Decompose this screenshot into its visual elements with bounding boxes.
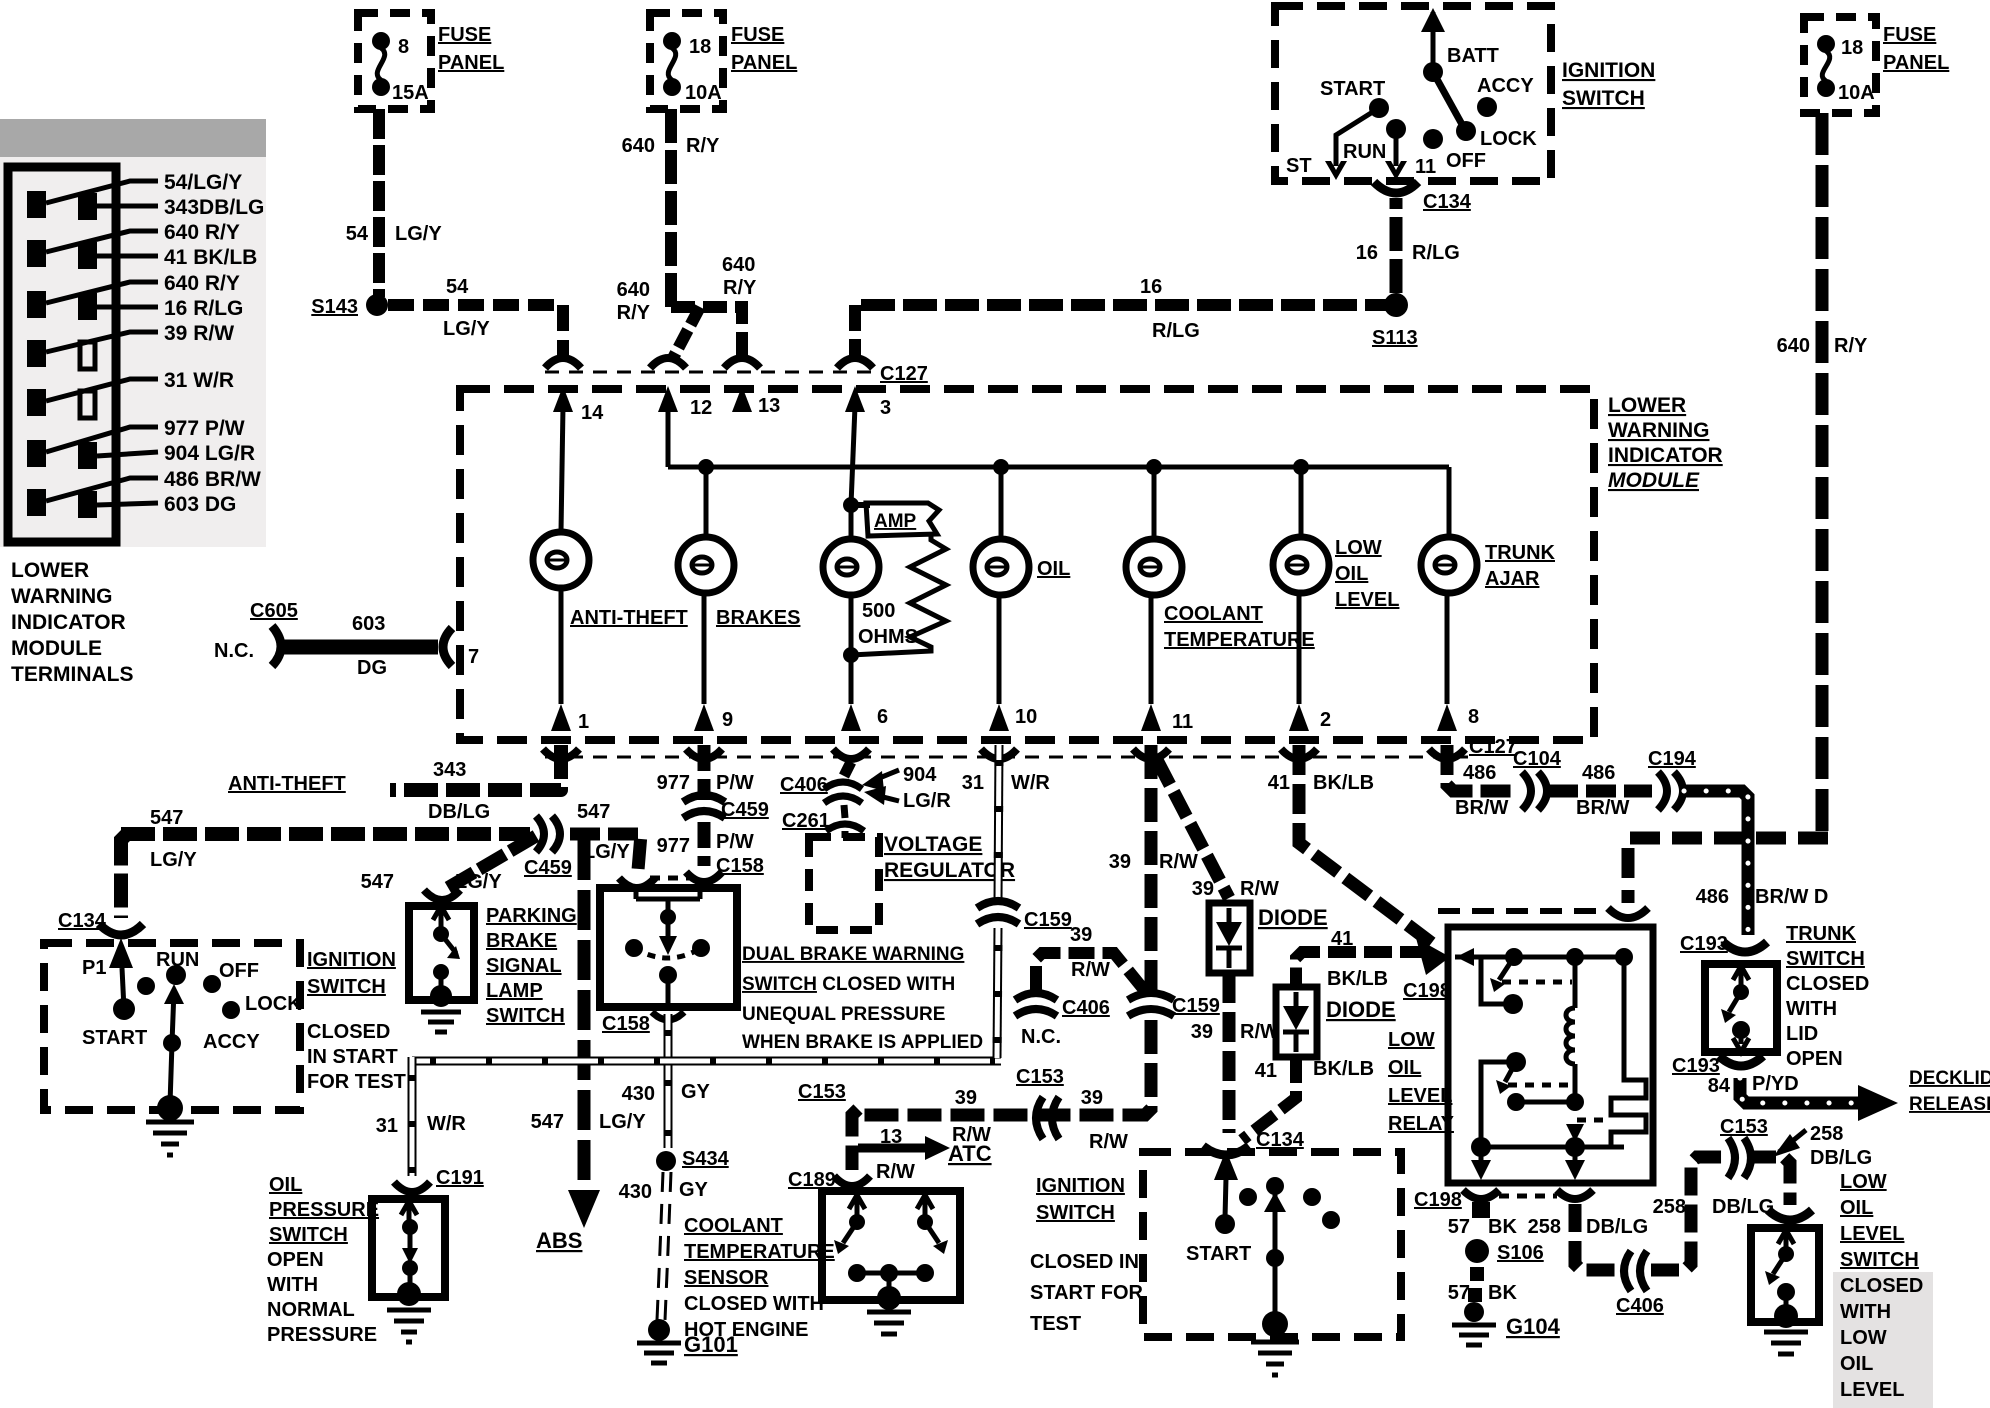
svg-text:C134: C134	[58, 910, 107, 932]
svg-text:CLOSED IN: CLOSED IN	[1030, 1251, 1139, 1273]
svg-text:SENSOR: SENSOR	[684, 1267, 769, 1289]
wire 41 diode2 top	[1296, 952, 1428, 985]
lead 54/LG/Y	[46, 181, 158, 203]
svg-text:54/LG/Y: 54/LG/Y	[164, 171, 242, 194]
ground low oil switch	[1764, 1332, 1808, 1354]
svg-text:BATT: BATT	[1447, 45, 1499, 67]
wire 486 BR/W from pin 8	[1447, 745, 1514, 791]
svg-text:GY: GY	[681, 1081, 711, 1103]
lamp TRUNK AJAR	[1447, 467, 1452, 537]
svg-text:BRAKES: BRAKES	[716, 607, 800, 629]
svg-text:BR/W D: BR/W D	[1755, 886, 1828, 908]
pin P1 arrow	[109, 938, 133, 968]
contact BATT	[1423, 62, 1443, 82]
lead 16 R/LG	[97, 305, 158, 310]
svg-text:SWITCH: SWITCH	[1562, 87, 1645, 110]
connector C134 ignition 2	[1203, 1146, 1249, 1155]
svg-text:PANEL: PANEL	[731, 52, 797, 74]
svg-text:BRAKE: BRAKE	[486, 930, 557, 952]
svg-text:39 R/W: 39 R/W	[164, 322, 234, 345]
svg-text:C194: C194	[1648, 748, 1697, 770]
lead 977 P/W	[46, 427, 158, 452]
wire 39 to C189 corner	[852, 1109, 858, 1170]
svg-text:C459: C459	[721, 799, 769, 821]
svg-text:P/YD: P/YD	[1752, 1073, 1799, 1095]
svg-text:ATC: ATC	[948, 1141, 992, 1166]
dashed connector line between pins	[650, 876, 692, 881]
connector C159 on 31	[977, 901, 1019, 908]
wire 39 R/W diode branch diagonal	[1157, 760, 1229, 898]
connector C189	[834, 1176, 870, 1186]
svg-text:LG/R: LG/R	[903, 790, 951, 812]
wire 31 W/R from pin 10	[998, 745, 999, 902]
svg-text:LOWER: LOWER	[1608, 394, 1686, 417]
voltage regulator dashed box	[809, 837, 879, 930]
svg-text:640: 640	[722, 254, 755, 276]
pin L1	[27, 191, 46, 218]
connector C104	[1522, 772, 1531, 810]
svg-text:LG/Y: LG/Y	[150, 849, 197, 871]
svg-text:OIL: OIL	[1840, 1197, 1873, 1219]
wire 640 R/Y right vertical long	[1816, 113, 1829, 833]
svg-text:R/W: R/W	[1240, 878, 1279, 900]
low oil switch contacts	[1778, 1230, 1794, 1248]
sensor left contact	[849, 1195, 865, 1216]
svg-text:C153: C153	[1016, 1066, 1064, 1088]
svg-text:10: 10	[1015, 706, 1037, 728]
svg-text:LOW: LOW	[1840, 1171, 1887, 1193]
wire 31 W/R down to C191	[408, 1057, 417, 1176]
svg-text:OHMS: OHMS	[858, 626, 918, 648]
svg-text:LEVEL: LEVEL	[1840, 1379, 1904, 1401]
svg-text:31 W/R: 31 W/R	[164, 369, 234, 392]
connector C153 on 258	[1728, 1138, 1735, 1178]
svg-text:486: 486	[1463, 762, 1496, 784]
svg-text:343DB/LG: 343DB/LG	[164, 196, 264, 219]
SECTION: right bottom: 486 trunk, relay, 258, decklid	[1388, 736, 1990, 1408]
SECTION: top-left terminal block	[0, 119, 479, 686]
dual brake side contacts	[625, 939, 643, 957]
svg-text:WARNING: WARNING	[1608, 419, 1710, 442]
svg-text:UNEQUAL PRESSURE: UNEQUAL PRESSURE	[742, 1004, 945, 1025]
svg-text:RELEASE: RELEASE	[1909, 1094, 1990, 1115]
splice S434	[656, 1151, 676, 1171]
svg-text:LEVEL: LEVEL	[1840, 1223, 1904, 1245]
svg-text:TEMPERATURE: TEMPERATURE	[1164, 629, 1315, 651]
svg-text:11: 11	[1415, 156, 1436, 178]
fuse F3 18 10A	[1817, 35, 1835, 53]
svg-text:TRUNK: TRUNK	[1786, 923, 1857, 945]
svg-text:603 DG: 603 DG	[164, 493, 236, 516]
ground oil pressure	[387, 1310, 431, 1342]
connector into dual brake left pin	[619, 878, 655, 888]
svg-text:C159: C159	[1172, 995, 1220, 1017]
connector J1 lower warning indicator module terminals body	[8, 167, 116, 542]
svg-text:8: 8	[398, 36, 409, 58]
svg-text:547: 547	[150, 807, 183, 829]
svg-text:PRESSURE: PRESSURE	[267, 1324, 377, 1346]
contact OFF	[203, 975, 221, 993]
svg-text:WARNING: WARNING	[11, 585, 113, 608]
connector C158 below dual brake	[652, 1012, 684, 1020]
pin 14 connector and arrow	[545, 358, 581, 368]
svg-text:343: 343	[433, 759, 466, 781]
svg-text:C134: C134	[1423, 191, 1472, 213]
svg-text:640: 640	[617, 279, 650, 301]
sensor bottom row	[848, 1264, 866, 1282]
pin 13 connector and arrow	[724, 358, 760, 368]
connector C159 on 39	[1128, 993, 1174, 1000]
svg-text:WHEN BRAKE IS APPLIED: WHEN BRAKE IS APPLIED	[742, 1032, 983, 1053]
svg-text:C153: C153	[1720, 1116, 1768, 1138]
connector C158 into dual brake right pin	[686, 872, 722, 882]
lead 904 LG/R	[97, 452, 158, 456]
wire 258 to low oil switch	[1748, 1157, 1790, 1205]
svg-text:ABS: ABS	[536, 1228, 582, 1253]
ignition switch 2 dashed box	[1143, 1152, 1401, 1337]
svg-text:LAMP: LAMP	[486, 980, 543, 1002]
svg-text:TEMPERATURE: TEMPERATURE	[684, 1241, 835, 1263]
svg-text:BK/LB: BK/LB	[1313, 772, 1374, 794]
svg-text:DB/LG: DB/LG	[1712, 1196, 1774, 1218]
wire 31 W/R below C159	[997, 928, 998, 1058]
blade START-ST	[1336, 108, 1379, 166]
svg-text:ANTI-THEFT: ANTI-THEFT	[570, 607, 688, 629]
SECTION: center bottom: 39/41 wires, diodes, sensors	[780, 745, 1451, 1375]
svg-text:IN START: IN START	[307, 1046, 398, 1068]
svg-text:486: 486	[1582, 762, 1615, 784]
svg-text:BK: BK	[1488, 1282, 1517, 1304]
svg-text:SWITCH CLOSED WITH: SWITCH CLOSED WITH	[742, 974, 955, 995]
lead 39 R/W	[46, 332, 158, 352]
svg-text:DB/LG: DB/LG	[428, 801, 490, 823]
ground G104	[1464, 1302, 1484, 1322]
svg-text:MODULE: MODULE	[11, 637, 102, 660]
contact small left	[137, 977, 155, 995]
svg-text:LOCK: LOCK	[245, 993, 302, 1015]
halftone band	[0, 119, 266, 157]
pin 8 arrow and connector	[1437, 704, 1457, 731]
wire 13 R/W ATC stub	[858, 1144, 928, 1153]
arrowhead into relay	[1416, 938, 1450, 975]
pin L4	[27, 340, 46, 367]
svg-text:RUN: RUN	[156, 949, 199, 971]
svg-text:39: 39	[1070, 924, 1092, 946]
svg-text:2: 2	[1320, 709, 1331, 731]
connector C191	[394, 1182, 430, 1192]
svg-text:16: 16	[1140, 276, 1162, 298]
svg-text:BR/W: BR/W	[1455, 797, 1508, 819]
wire diagonal into pin 12	[672, 307, 700, 360]
pin L7	[27, 489, 46, 516]
contact LOCK	[1456, 121, 1476, 141]
svg-text:15A: 15A	[392, 82, 429, 104]
svg-text:P/W: P/W	[716, 772, 754, 794]
wire 547 corner down to C134 left	[121, 834, 127, 918]
diode D2 symbol	[1283, 1006, 1309, 1030]
switch wiper RUN	[170, 990, 174, 1104]
wire 16 R/LG to C134	[1390, 198, 1403, 293]
connector C198 below relay left	[1463, 1190, 1499, 1199]
bus line	[668, 465, 1449, 470]
contact OFF	[1423, 129, 1443, 149]
wire 84 P/YD dotted	[1740, 1078, 1862, 1103]
svg-text:14: 14	[581, 402, 604, 424]
svg-text:FUSE: FUSE	[1883, 24, 1936, 46]
svg-text:547: 547	[577, 801, 610, 823]
pin 12 connector and arrow	[650, 358, 686, 368]
ignition switch lower-left box	[44, 943, 300, 1110]
svg-text:LG/Y: LG/Y	[599, 1111, 646, 1133]
wire pin 12 to bus	[666, 406, 671, 467]
wire 640 R/Y vertical	[665, 109, 677, 307]
svg-text:P/W: P/W	[716, 831, 754, 853]
svg-text:CLOSED WITH: CLOSED WITH	[684, 1293, 824, 1315]
svg-text:START FOR: START FOR	[1030, 1282, 1144, 1304]
svg-text:R/W: R/W	[1071, 959, 1110, 981]
svg-text:WITH: WITH	[267, 1274, 318, 1296]
svg-text:12: 12	[690, 397, 712, 419]
wire 486 BR/W D dotted	[1684, 791, 1748, 935]
connector into relay top right	[1608, 908, 1648, 918]
svg-text:CLOSED: CLOSED	[1840, 1275, 1923, 1297]
svg-text:LOW: LOW	[1388, 1029, 1435, 1051]
contact START	[1369, 98, 1389, 118]
svg-text:54: 54	[446, 276, 469, 298]
svg-text:39: 39	[1192, 878, 1214, 900]
svg-text:C406: C406	[1616, 1295, 1664, 1317]
sensor right contact	[917, 1195, 933, 1216]
svg-text:640 R/Y: 640 R/Y	[164, 272, 240, 295]
svg-text:C261: C261	[782, 810, 830, 832]
svg-text:TEST: TEST	[1030, 1313, 1081, 1335]
svg-text:547: 547	[361, 871, 394, 893]
svg-text:R/W: R/W	[876, 1161, 915, 1183]
dual brake internal top loop	[636, 890, 700, 912]
svg-text:IGNITION: IGNITION	[1562, 59, 1655, 82]
contact RUN pin	[1386, 119, 1406, 139]
ign2 contacts	[1239, 1188, 1257, 1206]
svg-text:54: 54	[346, 223, 369, 245]
wire 54 LG/Y vertical	[373, 109, 385, 297]
svg-text:AMP: AMP	[874, 511, 917, 532]
lamp BRAKES	[704, 467, 709, 537]
dual brake warning switch box	[600, 888, 737, 1007]
svg-text:RELAY: RELAY	[1388, 1113, 1455, 1135]
svg-text:C193: C193	[1672, 1055, 1720, 1077]
svg-text:C191: C191	[436, 1167, 484, 1189]
svg-text:39: 39	[1109, 851, 1131, 873]
svg-text:13: 13	[880, 1126, 902, 1148]
svg-text:SWITCH: SWITCH	[1036, 1202, 1115, 1224]
relay contact branch	[1481, 957, 1506, 1004]
connector C194	[1658, 772, 1667, 810]
SECTION: fuse panels and top wires	[311, 6, 1949, 903]
oil pressure switch box	[372, 1199, 445, 1297]
contact RUN	[166, 965, 186, 985]
contact ACCY	[1477, 97, 1497, 117]
svg-text:13: 13	[758, 395, 780, 417]
svg-text:LEVEL: LEVEL	[1388, 1085, 1452, 1107]
parking brake switch contacts	[439, 910, 444, 928]
svg-text:TERMINALS: TERMINALS	[11, 663, 134, 686]
svg-text:OPEN: OPEN	[267, 1249, 324, 1271]
svg-text:WITH: WITH	[1786, 998, 1837, 1020]
pin R6	[78, 442, 97, 469]
svg-text:ACCY: ACCY	[1477, 75, 1534, 97]
module outline dashed box	[460, 389, 1594, 740]
gray bg low oil level	[1833, 1272, 1933, 1408]
wire 16 R/LG horizontal	[861, 299, 1387, 311]
svg-text:DB/LG: DB/LG	[1810, 1147, 1872, 1169]
ign2 wiper	[1273, 1186, 1278, 1322]
label AMP callout	[866, 503, 939, 536]
svg-text:16: 16	[1356, 242, 1378, 264]
relay switch 2	[1506, 1052, 1526, 1072]
svg-text:39: 39	[1081, 1087, 1103, 1109]
lamp LOW OIL LEVEL	[1299, 467, 1304, 537]
svg-text:PANEL: PANEL	[1883, 52, 1949, 74]
fuse panel 3 box	[1804, 17, 1876, 113]
svg-text:500: 500	[862, 600, 895, 622]
parking brake signal lamp switch box	[409, 906, 474, 1000]
svg-text:INDICATOR: INDICATOR	[11, 611, 126, 634]
connector C153 on 39 horizontal	[1036, 1097, 1043, 1139]
svg-text:SIGNAL: SIGNAL	[486, 955, 562, 977]
svg-text:C198: C198	[1414, 1189, 1462, 1211]
relay top line with contacts	[1455, 955, 1624, 960]
svg-text:977: 977	[657, 835, 690, 857]
low oil level relay dashed top	[1438, 908, 1600, 914]
lead 640 R/Y b	[46, 282, 158, 303]
junction dot	[1146, 459, 1162, 475]
pin 6 arrow and connector	[841, 704, 861, 731]
diode D1 box	[1209, 903, 1250, 973]
svg-text:C127: C127	[1469, 736, 1517, 758]
svg-text:HOT ENGINE: HOT ENGINE	[684, 1319, 808, 1341]
lamp OIL	[999, 467, 1004, 539]
pin L2	[27, 240, 46, 267]
svg-text:31: 31	[962, 772, 984, 794]
splice S143	[366, 294, 388, 316]
svg-text:C605: C605	[250, 600, 298, 622]
svg-text:C406: C406	[780, 774, 828, 796]
svg-text:VOLTAGE: VOLTAGE	[884, 833, 982, 856]
svg-text:P1: P1	[82, 957, 106, 979]
svg-text:ST: ST	[1286, 155, 1312, 177]
wire 547 diagonal to parking brake	[444, 836, 536, 890]
svg-text:R/W: R/W	[1159, 851, 1198, 873]
svg-text:57: 57	[1448, 1216, 1470, 1238]
splice S113	[1384, 293, 1408, 317]
SECTION: left bottom: 547 network, ignition sw 1, parking brake, dual brake	[44, 745, 1001, 1363]
wire 39 below diode	[1223, 973, 1236, 1133]
svg-text:603: 603	[352, 613, 385, 635]
svg-text:977: 977	[657, 772, 690, 794]
fuse F1 8 15A	[372, 32, 390, 50]
ground ignition 2	[1251, 1342, 1299, 1375]
wire 54 LG/Y horizontal to pin 14	[388, 305, 563, 356]
svg-text:904 LG/R: 904 LG/R	[164, 442, 255, 465]
svg-text:BK/LB: BK/LB	[1313, 1058, 1374, 1080]
svg-text:OPEN: OPEN	[1786, 1048, 1843, 1070]
svg-text:LOW: LOW	[1840, 1327, 1887, 1349]
svg-text:18: 18	[1841, 37, 1863, 59]
svg-text:FOR TEST: FOR TEST	[307, 1071, 406, 1093]
svg-text:LG/Y: LG/Y	[443, 318, 490, 340]
svg-text:10A: 10A	[685, 82, 722, 104]
svg-text:PANEL: PANEL	[438, 52, 504, 74]
svg-text:R/Y: R/Y	[723, 277, 757, 299]
pin R5 empty	[80, 391, 95, 418]
low oil level switch box	[1751, 1228, 1819, 1322]
pin 9 arrow and connector	[694, 704, 714, 731]
wire 977 P/W from pin 9	[698, 745, 711, 800]
pin 11 arrow and connector	[1141, 704, 1161, 731]
pin 10 arrow and connector	[989, 704, 1009, 731]
svg-text:DUAL BRAKE WARNING: DUAL BRAKE WARNING	[742, 944, 964, 965]
svg-text:OIL: OIL	[1388, 1057, 1421, 1079]
wire 904 LG/R pin 6 stub	[844, 762, 851, 776]
svg-text:BK/LB: BK/LB	[1327, 968, 1388, 990]
svg-text:OIL: OIL	[1335, 563, 1368, 585]
connector C406	[824, 782, 862, 789]
lead 603 DG	[97, 503, 158, 505]
pin L3	[27, 291, 46, 318]
svg-text:C406: C406	[1062, 997, 1110, 1019]
svg-text:G104: G104	[1506, 1314, 1561, 1339]
wire 41 below diode2	[1242, 1057, 1296, 1140]
svg-text:9: 9	[722, 709, 733, 731]
svg-text:R/Y: R/Y	[617, 302, 651, 324]
svg-text:640 R/Y: 640 R/Y	[164, 221, 240, 244]
connector C198 below relay right	[1557, 1190, 1593, 1199]
svg-text:C153: C153	[798, 1081, 846, 1103]
svg-text:LOW: LOW	[1335, 537, 1382, 559]
svg-text:LOWER: LOWER	[11, 559, 89, 582]
svg-text:LOCK: LOCK	[1480, 128, 1537, 150]
svg-text:FUSE: FUSE	[731, 24, 784, 46]
svg-text:ACCY: ACCY	[203, 1031, 260, 1053]
lead 486 BR/W	[46, 478, 158, 501]
svg-text:16 R/LG: 16 R/LG	[164, 297, 243, 320]
svg-text:39: 39	[1191, 1021, 1213, 1043]
svg-text:C158: C158	[602, 1013, 650, 1035]
bottom connector line C127 thin dashed	[545, 756, 1468, 759]
junction dot	[993, 459, 1009, 475]
svg-text:C198: C198	[1403, 980, 1451, 1002]
svg-text:640: 640	[1777, 335, 1810, 357]
svg-text:R/Y: R/Y	[1834, 335, 1868, 357]
svg-text:NORMAL: NORMAL	[267, 1299, 355, 1321]
oil pressure switch: wire 31 W/R horizontal	[412, 1057, 1001, 1066]
ignition switch 1 box	[1275, 6, 1551, 181]
svg-text:TRUNK: TRUNK	[1485, 542, 1556, 564]
svg-text:547: 547	[531, 1111, 564, 1133]
connector C459b parking brake	[424, 890, 460, 900]
svg-text:C459: C459	[524, 857, 572, 879]
blade BATT-LOCK	[1433, 72, 1464, 128]
pin L6	[27, 440, 46, 467]
ground parking brake	[421, 1012, 461, 1032]
wire 547 LG/Y main horizontal	[121, 827, 530, 841]
svg-text:R/LG: R/LG	[1152, 320, 1200, 342]
svg-text:MODULE: MODULE	[1608, 469, 1700, 492]
wire 977 P/W lower	[698, 822, 711, 866]
svg-text:SWITCH: SWITCH	[486, 1005, 565, 1027]
svg-text:430: 430	[622, 1083, 655, 1105]
fuse F2 18 10A	[663, 32, 681, 50]
